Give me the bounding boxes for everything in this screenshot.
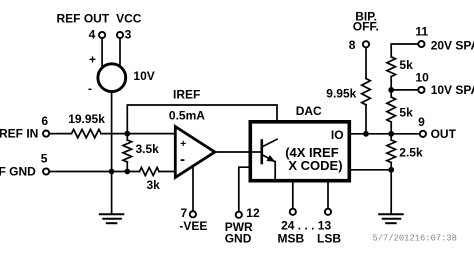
pin 4 REF OUT terminal <box>99 32 105 38</box>
resistor 3.5k <box>126 134 128 140</box>
svg-text:20V SPAN: 20V SPAN <box>431 38 474 52</box>
svg-text:LSB: LSB <box>317 231 341 245</box>
junction <box>388 87 394 93</box>
transistor Q1 emitter <box>262 155 275 162</box>
svg-text:11: 11 <box>415 24 428 38</box>
svg-text:+: + <box>180 138 186 150</box>
svg-text:0.5mA: 0.5mA <box>169 109 205 123</box>
junction <box>124 169 130 175</box>
pin 8 BIP OFF terminal <box>363 41 369 47</box>
voltage source 10V <box>98 64 126 92</box>
pin 6 REF IN terminal <box>43 131 49 137</box>
svg-text:X CODE): X CODE) <box>288 158 342 173</box>
DAC box <box>250 122 349 181</box>
svg-text:10V: 10V <box>133 69 154 83</box>
svg-text:-VEE: -VEE <box>179 219 207 233</box>
wire pin11 to span divider <box>391 44 418 57</box>
op-amp U1 <box>175 127 215 178</box>
ground left <box>100 214 124 223</box>
svg-text:9: 9 <box>418 115 425 129</box>
wire op-amp to pin7 -VEE <box>192 165 194 211</box>
wire between 5k resistors <box>390 77 392 98</box>
svg-text:5k: 5k <box>399 105 413 119</box>
pin 24 MSB terminal <box>290 209 296 215</box>
pin 11 20V SPAN terminal <box>418 41 424 47</box>
wire 5k to IO node <box>390 122 392 140</box>
svg-text:2.5k: 2.5k <box>399 145 423 159</box>
svg-text:10: 10 <box>415 71 429 85</box>
wire pin6 to 19.95k <box>50 133 72 135</box>
svg-text:OUT: OUT <box>431 127 457 141</box>
svg-text:GND: GND <box>225 232 252 246</box>
pin 13 LSB terminal <box>325 209 331 215</box>
wire pin12 to DAC box <box>239 167 250 211</box>
pin 7 -VEE terminal <box>190 211 196 217</box>
resistor 3k <box>140 168 160 176</box>
svg-text:MSB: MSB <box>278 231 305 245</box>
pin 9 OUT terminal <box>420 131 426 137</box>
wire pin8 to 9.95k <box>365 48 367 79</box>
wire 19.95k to op-amp + input <box>101 133 176 135</box>
svg-text:IO: IO <box>331 128 344 142</box>
wire DAC box to LSB pin <box>327 181 329 209</box>
junction <box>124 131 130 137</box>
wire pin3 to source <box>119 38 121 68</box>
svg-text:8: 8 <box>349 38 356 52</box>
svg-text:3.5k: 3.5k <box>136 142 160 156</box>
svg-text:IREF: IREF <box>173 87 200 101</box>
resistor 5k lower <box>387 97 396 122</box>
wire IREF feedback to DAC collector <box>127 105 277 140</box>
svg-text:REF IN: REF IN <box>0 126 38 140</box>
wire pin4 to source <box>101 38 103 68</box>
svg-text:VCC: VCC <box>116 11 142 25</box>
pin 12 PWR GND terminal <box>236 212 242 218</box>
svg-text:OFF.: OFF. <box>353 20 379 34</box>
wire 2.5k to ground node <box>390 163 392 214</box>
svg-text:12: 12 <box>246 206 260 220</box>
svg-text:9.95k: 9.95k <box>326 86 356 100</box>
wire 3k to op-amp - input <box>159 171 176 173</box>
svg-text:F GND: F GND <box>0 164 36 178</box>
junction <box>388 131 394 137</box>
junction <box>363 131 369 137</box>
svg-text:5: 5 <box>41 152 48 166</box>
svg-text:DAC: DAC <box>296 104 322 118</box>
wire pin5 to 3k <box>50 171 140 173</box>
svg-text:+: + <box>89 53 96 67</box>
resistor 5k upper <box>387 57 396 77</box>
resistor 9.95k <box>362 79 371 105</box>
junction <box>388 167 394 173</box>
wire DAC box lower to ground node <box>351 169 391 171</box>
junction <box>109 169 115 175</box>
svg-text:-: - <box>88 81 92 95</box>
resistor 19.95k <box>72 129 102 137</box>
svg-text:5/7/201216:07:38: 5/7/201216:07:38 <box>373 233 457 243</box>
transistor Q1 emitter to box bottom <box>274 162 276 181</box>
wire 9.95k to IO node <box>365 105 367 134</box>
svg-text:REF OUT: REF OUT <box>57 11 110 25</box>
pin 5 REF GND terminal <box>43 168 49 174</box>
svg-text:19.95k: 19.95k <box>68 112 105 126</box>
wire IO to pin9 OUT <box>351 133 420 135</box>
svg-text:3k: 3k <box>147 178 161 192</box>
resistor 2.5k <box>387 140 396 163</box>
svg-text:4: 4 <box>89 27 96 41</box>
transistor Q1 base wire <box>252 151 262 153</box>
svg-text:3: 3 <box>125 27 132 41</box>
wire node to pin10 <box>391 89 418 91</box>
svg-text:10V SPAN: 10V SPAN <box>431 83 474 97</box>
svg-text:24 . . . 13: 24 . . . 13 <box>281 218 331 232</box>
transistor Q1 base bar <box>260 141 263 164</box>
pin 3 VCC terminal <box>117 32 123 38</box>
svg-text:5k: 5k <box>399 58 413 72</box>
wire source bottom to ground <box>111 92 113 214</box>
svg-text:6: 6 <box>41 114 48 128</box>
wire DAC box to MSB pin <box>292 181 294 209</box>
transistor Q1 collector <box>262 139 277 147</box>
svg-text:-: - <box>180 151 185 168</box>
svg-text:7: 7 <box>181 206 188 220</box>
ground right <box>379 214 403 223</box>
wire op-amp output to transistor base <box>215 151 262 153</box>
pin 10 10V SPAN terminal <box>418 87 424 93</box>
